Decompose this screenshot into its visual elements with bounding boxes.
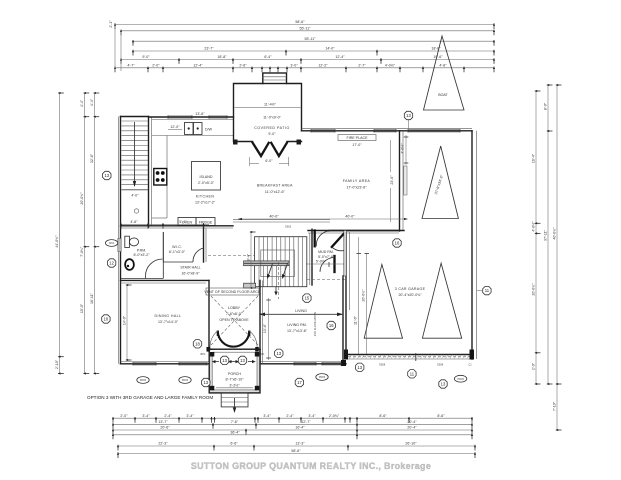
window dining bottom 2 — [179, 362, 207, 365]
kitchen counter lines — [152, 136, 234, 219]
svg-text:12'-4": 12'-4" — [335, 55, 345, 59]
svg-text:LIVING: LIVING — [295, 309, 307, 313]
svg-text:LOBBY: LOBBY — [228, 306, 241, 310]
svg-text:5'-1": 5'-1" — [179, 220, 187, 224]
svg-text:6'-1"x3'-0": 6'-1"x3'-0" — [169, 250, 186, 254]
window family top 1 — [311, 129, 335, 132]
room label LOBBY — [219, 306, 249, 322]
dining top wall — [121, 280, 210, 283]
svg-text:7'-6"x8'-0": 7'-6"x8'-0" — [226, 312, 243, 316]
marker 13 top with leader — [408, 120, 410, 129]
stair landing circle — [134, 209, 138, 213]
svg-text:13: 13 — [203, 380, 208, 385]
room label MUD RM — [318, 250, 335, 259]
svg-text:13'-7"x13'-6": 13'-7"x13'-6" — [287, 329, 308, 333]
svg-text:8'-6": 8'-6" — [437, 414, 445, 418]
garage car triangle left — [364, 264, 402, 338]
mud room left wall — [310, 229, 312, 285]
top dimension line 9-0 / 18-8 / 12-4 — [120, 55, 495, 64]
main stair — [255, 237, 307, 287]
powder room fixtures — [125, 236, 150, 270]
svg-text:3'-2½": 3'-2½" — [229, 384, 240, 388]
svg-text:W.I.C.: W.I.C. — [172, 245, 182, 249]
window seat family right — [404, 166, 407, 195]
room label 3 CAR GARAGE — [395, 287, 426, 297]
svg-text:13'-7": 13'-7" — [158, 420, 168, 424]
svg-text:VENT OF SECOND FLOOR ARCH: VENT OF SECOND FLOOR ARCH — [204, 290, 261, 294]
svg-text:37'-11": 37'-11" — [544, 229, 548, 241]
svg-text:2'-0": 2'-0" — [532, 362, 536, 370]
svg-text:8'-0": 8'-0" — [544, 102, 548, 110]
svg-text:23'-7": 23'-7" — [204, 47, 214, 51]
svg-text:D/W: D/W — [205, 128, 213, 132]
svg-text:8'-4": 8'-4" — [247, 253, 251, 261]
wic walls — [163, 232, 203, 262]
svg-text:26'-10": 26'-10" — [405, 442, 417, 446]
svg-text:40'-0": 40'-0" — [345, 215, 355, 219]
mud room dim line — [306, 260, 346, 268]
oven fridge boxes — [178, 218, 215, 226]
front double door petal leaves — [201, 331, 265, 357]
window kitchen top 2 — [209, 115, 227, 118]
svg-text:5'-0½": 5'-0½" — [316, 260, 327, 264]
svg-text:STAIR HALL: STAIR HALL — [180, 266, 200, 270]
stair hatched landing — [244, 261, 289, 288]
svg-text:OPTION 3 WITH 3RD GARAGE AND L: OPTION 3 WITH 3RD GARAGE AND LARGE FAMIL… — [87, 395, 213, 400]
svg-text:12'-2": 12'-2" — [318, 64, 328, 68]
garage bottom wall and doors — [344, 350, 474, 367]
svg-text:13'-6": 13'-6" — [263, 323, 267, 333]
svg-text:FIRE PLACE: FIRE PLACE — [347, 136, 369, 140]
svg-text:4'-0": 4'-0" — [131, 194, 139, 198]
svg-text:16: 16 — [329, 323, 334, 328]
svg-text:9'-0": 9'-0" — [142, 55, 150, 59]
svg-text:W01: W01 — [109, 241, 115, 245]
svg-text:2'-7": 2'-7" — [358, 64, 366, 68]
svg-text:11'-0"x12'-6": 11'-0"x12'-6" — [265, 190, 286, 194]
beam line breakfast bottom G502 — [233, 220, 330, 229]
svg-text:6'-0"x3'-2": 6'-0"x3'-2" — [133, 253, 150, 257]
room label KITCHEN — [195, 195, 216, 205]
svg-text:2'-6": 2'-6" — [239, 64, 247, 68]
left dimension line 44-0 — [55, 92, 64, 375]
svg-text:11: 11 — [410, 371, 415, 376]
svg-text:13: 13 — [240, 358, 245, 363]
marker 17 bottom living — [295, 378, 303, 386]
mud room door leaf 1 — [315, 231, 331, 247]
marker 13 garage left bottom — [356, 363, 364, 371]
fireplace label box — [338, 135, 376, 148]
svg-text:7'-6": 7'-6" — [231, 420, 239, 424]
window family top 2 — [374, 129, 396, 132]
svg-text:17'-0": 17'-0" — [352, 143, 362, 147]
svg-text:20'-4"x20'-0¾": 20'-4"x20'-0¾" — [398, 293, 422, 297]
dining interior vertical dim — [123, 284, 132, 361]
stair arrows — [244, 262, 288, 299]
svg-text:32'-6": 32'-6" — [90, 153, 94, 163]
lobby dashed cross — [211, 296, 258, 345]
svg-text:COVERED PATIO: COVERED PATIO — [254, 126, 290, 130]
family right wall top vdim — [401, 135, 409, 165]
patio chimney bump — [263, 73, 287, 84]
svg-text:LIVING RM.: LIVING RM. — [287, 323, 306, 327]
svg-text:ISLAND: ISLAND — [200, 175, 213, 179]
family interior rotated dim 23-6 — [390, 140, 394, 222]
option text — [87, 395, 213, 400]
stair block walls top-left — [121, 117, 152, 228]
svg-text:4'-0½": 4'-0½" — [385, 64, 396, 68]
garage interior rotated dims — [354, 237, 370, 354]
svg-text:18: 18 — [195, 341, 200, 346]
svg-text:G508: G508 — [437, 363, 444, 367]
family right wall — [400, 131, 404, 231]
garage left wall — [346, 232, 350, 355]
svg-text:20'-0¾": 20'-0¾" — [362, 289, 366, 302]
svg-text:18'-8": 18'-8" — [431, 47, 441, 51]
svg-text:55'-11": 55'-11" — [300, 27, 312, 31]
patio interior line and labels — [235, 103, 301, 120]
svg-text:58'-6": 58'-6" — [291, 449, 301, 453]
bottom dimension 36-4 row — [112, 431, 473, 440]
svg-text:16'-4": 16'-4" — [295, 426, 305, 430]
kitchen island — [192, 162, 221, 191]
left dimension line 4-4 / 20-0 — [80, 92, 89, 375]
top dimension line 55-11 — [120, 27, 495, 36]
svg-text:5'-0"x7'-8": 5'-0"x7'-8" — [318, 255, 335, 259]
svg-text:6'-6": 6'-6" — [230, 442, 238, 446]
bottom dimension 20-6 / 16-4 row — [112, 426, 473, 435]
dining bottom wall — [121, 362, 210, 364]
dining/lobby wall — [208, 280, 210, 349]
marker 13 bottom garage — [439, 380, 447, 388]
stair hall dashed line — [208, 254, 254, 256]
marker 13 bottom dining — [202, 378, 210, 386]
powder room walls — [121, 232, 163, 279]
marker 13 living — [275, 349, 283, 357]
left dimension line 32-6 / 16-11 — [90, 92, 99, 375]
stair treads upper-left staircase — [122, 121, 149, 190]
room label STAIR HALL — [180, 266, 200, 276]
kitchen bottom wall — [121, 226, 234, 228]
svg-text:36'-4": 36'-4" — [230, 431, 240, 435]
svg-text:2ND FLOOR ABOVE: 2ND FLOOR ABOVE — [313, 312, 317, 337]
svg-text:3'-0": 3'-0" — [290, 64, 298, 68]
svg-text:12'-0": 12'-0" — [170, 125, 180, 129]
stair hall wall — [204, 226, 207, 262]
svg-text:6'-0": 6'-0" — [265, 159, 273, 163]
room label FAMILY AREA — [343, 179, 371, 190]
svg-text:3'-4": 3'-4" — [308, 414, 316, 418]
svg-text:4'-7": 4'-7" — [127, 64, 135, 68]
window kitchen top 1 — [168, 115, 192, 118]
window garage top — [408, 129, 460, 132]
svg-text:FAMILY AREA: FAMILY AREA — [343, 179, 371, 183]
marker 13 left — [103, 171, 111, 179]
svg-text:16'-11": 16'-11" — [90, 292, 94, 304]
svg-text:12'-4": 12'-4" — [193, 64, 203, 68]
svg-text:4'-0½": 4'-0½" — [532, 221, 536, 232]
marker 11 right with leader — [477, 290, 482, 292]
svg-text:8'-6": 8'-6" — [379, 414, 387, 418]
stairwell inner opening rect — [261, 250, 295, 277]
mud room / garage gray wall — [344, 231, 347, 277]
svg-text:13'-2"x17'-2": 13'-2"x17'-2" — [195, 201, 216, 205]
svg-text:PR03: PR03 — [140, 378, 147, 382]
svg-text:4'-4": 4'-4" — [80, 99, 84, 107]
svg-text:BOAT: BOAT — [438, 93, 448, 97]
porch steps — [221, 393, 248, 413]
room label PORCH — [216, 372, 253, 388]
svg-text:PR03: PR03 — [182, 378, 189, 382]
marker 15 living — [303, 294, 311, 302]
svg-text:23'-6": 23'-6" — [390, 175, 394, 185]
svg-text:15: 15 — [305, 296, 310, 301]
svg-text:SUTTON GROUP QUANTUM REALTY IN: SUTTON GROUP QUANTUM REALTY INC., Broker… — [191, 461, 431, 471]
marker 13 porch right — [238, 356, 246, 364]
svg-text:2'-0¾": 2'-0¾" — [329, 414, 340, 418]
room label WIC — [169, 245, 186, 254]
svg-text:PORCH: PORCH — [228, 372, 241, 376]
mud room dashed line — [307, 279, 345, 281]
svg-text:PR03: PR03 — [319, 375, 326, 379]
living room right wall — [342, 276, 344, 364]
powder room door arc — [146, 259, 163, 279]
window in left wall (powder room) — [118, 239, 121, 252]
outer wall left side — [119, 117, 121, 364]
svg-text:7'-10": 7'-10" — [553, 401, 557, 411]
svg-text:OPEN TO ABOVE: OPEN TO ABOVE — [219, 318, 249, 322]
marker ovals bottom row — [137, 377, 149, 384]
svg-text:2'-0": 2'-0" — [152, 64, 160, 68]
svg-text:4'-4": 4'-4" — [90, 98, 94, 106]
svg-text:10: 10 — [104, 317, 109, 322]
svg-text:19'-6": 19'-6" — [433, 55, 443, 59]
svg-text:6'-4": 6'-4" — [264, 55, 272, 59]
svg-text:11'-6": 11'-6" — [354, 315, 358, 325]
svg-text:DINING HALL: DINING HALL — [155, 314, 182, 318]
svg-text:13: 13 — [406, 113, 411, 118]
room label COVERED PATIO — [254, 126, 290, 136]
svg-text:BP1: BP1 — [201, 352, 206, 356]
mud room door leaf 3 — [320, 256, 335, 272]
svg-text:2'-4": 2'-4" — [164, 414, 172, 418]
svg-text:4'-8": 4'-8" — [439, 64, 447, 68]
stair up arrow — [133, 122, 136, 187]
svg-text:BREAKFAST AREA: BREAKFAST AREA — [257, 184, 293, 188]
covered patio walls — [234, 84, 302, 142]
svg-text:20'-4": 20'-4" — [407, 420, 417, 424]
svg-text:16'-0"x8'-9": 16'-0"x8'-9" — [181, 272, 200, 276]
watermark — [191, 461, 431, 471]
top-left small dim 2-1 — [109, 20, 121, 71]
svg-text:20'-0¾": 20'-0¾" — [80, 192, 84, 205]
svg-text:4'-6": 4'-6" — [130, 220, 138, 224]
stair dim label 4-0 — [131, 194, 139, 198]
stair left vertical dim — [247, 231, 256, 289]
garage right wall — [472, 131, 477, 359]
marker 11 bottom garage — [408, 370, 416, 378]
svg-text:13: 13 — [441, 382, 446, 387]
svg-text:17'-0"x23'-6": 17'-0"x23'-6" — [346, 186, 367, 190]
room label DINING HALL — [155, 314, 182, 324]
top dimension line small segments — [114, 64, 495, 73]
living interior vdim — [263, 298, 271, 360]
svg-text:2'-10": 2'-10" — [55, 359, 59, 369]
svg-text:11'-0"x9'-0": 11'-0"x9'-0" — [263, 116, 282, 120]
svg-text:2'-0"x5'-0": 2'-0"x5'-0" — [198, 181, 215, 185]
svg-text:12: 12 — [109, 261, 114, 266]
svg-text:20'-6": 20'-6" — [160, 426, 170, 430]
right dimension line 8-0 / 37-11 — [544, 84, 553, 385]
porch walls — [209, 349, 260, 393]
interior dim 40-0 — [238, 215, 408, 221]
svg-text:KITCHEN: KITCHEN — [196, 195, 215, 199]
svg-text:22'-3": 22'-3" — [158, 442, 168, 446]
svg-text:C1: C1 — [468, 363, 472, 367]
top dimension line 50-11 — [132, 37, 495, 46]
garage car triangle right — [422, 263, 461, 338]
bottom dimension small segments row — [112, 414, 473, 423]
svg-text:2'-4": 2'-4" — [286, 414, 294, 418]
svg-text:11: 11 — [485, 288, 490, 293]
svg-text:16'-4": 16'-4" — [532, 153, 536, 163]
marker 16 living — [327, 321, 335, 329]
dim line kitchen 12-0 — [168, 125, 182, 130]
svg-text:13: 13 — [104, 173, 109, 178]
svg-text:14'-0": 14'-0" — [325, 47, 335, 51]
lobby right wall — [260, 280, 263, 363]
top dimension line 23-7 / 14-0 / 18-8 — [132, 47, 495, 56]
svg-text:3 CAR GARAGE: 3 CAR GARAGE — [395, 287, 426, 291]
patio wall posts — [233, 140, 301, 145]
svg-text:P.RM.: P.RM. — [137, 249, 147, 253]
right dimension line 16-4 / 20-0 — [532, 90, 541, 385]
svg-text:7'-0¾": 7'-0¾" — [80, 246, 84, 257]
svg-text:20'-0¾": 20'-0¾" — [532, 283, 536, 296]
svg-text:13: 13 — [357, 365, 362, 370]
marker 18 lobby — [193, 340, 201, 348]
room label BREAKFAST AREA — [257, 184, 293, 195]
svg-text:G508: G508 — [379, 363, 386, 367]
svg-text:40'-0¾": 40'-0¾" — [553, 227, 557, 240]
svg-text:16: 16 — [395, 241, 400, 246]
svg-text:18'-8": 18'-8" — [217, 55, 227, 59]
family bottom / mud room top wall — [308, 229, 404, 233]
marker 16 mud — [393, 239, 401, 247]
svg-text:58'-6": 58'-6" — [295, 20, 305, 24]
svg-text:13: 13 — [276, 351, 281, 356]
marker 12 left — [107, 259, 115, 267]
svg-text:13'-6": 13'-6" — [195, 112, 205, 116]
rotated note 2nd floor above — [313, 312, 317, 337]
svg-text:13'-7"x14'-0": 13'-7"x14'-0" — [158, 320, 179, 324]
kitchen top wall — [149, 117, 234, 120]
svg-text:12'-7": 12'-7" — [301, 420, 311, 424]
svg-text:11'-4½": 11'-4½" — [264, 103, 277, 107]
marker oval left — [105, 240, 117, 247]
patio french doors swing V strokes — [250, 142, 289, 166]
vent label box — [204, 288, 261, 295]
window living bottom 2 — [322, 362, 341, 365]
svg-text:20'-4": 20'-4" — [407, 426, 417, 430]
porch corner posts — [206, 352, 259, 390]
room label LIVING RM — [287, 323, 308, 333]
svg-text:8'-7"x6'-10": 8'-7"x6'-10" — [225, 378, 244, 382]
bottom dimension 13-7 / 7-6 / 12-7 / 20-4 row — [112, 420, 473, 429]
svg-text:G502: G502 — [285, 225, 292, 229]
svg-text:17: 17 — [297, 380, 302, 385]
bottom dimension 22-3 / 6-6 / 13-3 / 26-10 row — [117, 442, 476, 451]
dim label 13-6 kitchen wall — [195, 112, 205, 116]
svg-text:3'-4": 3'-4" — [186, 414, 194, 418]
stove cooktop — [154, 169, 167, 186]
stair hall top dim labels — [120, 220, 209, 229]
boat triangle — [424, 36, 465, 110]
svg-text:FRIDGE: FRIDGE — [199, 221, 213, 225]
svg-text:44'-0¾": 44'-0¾" — [55, 235, 59, 248]
marker 13 porch left — [220, 356, 228, 364]
living dim arrow — [259, 309, 343, 316]
dishwasher D/W — [185, 123, 213, 135]
svg-text:3'-4": 3'-4" — [142, 414, 150, 418]
porch octagon arrows — [212, 360, 256, 363]
svg-text:PR03: PR03 — [457, 377, 464, 381]
svg-text:MUD RM.: MUD RM. — [318, 250, 334, 254]
bottom dimension 58-6 row — [117, 449, 476, 458]
svg-text:2'-0": 2'-0" — [120, 414, 128, 418]
window living bottom 1 — [294, 362, 316, 365]
right dimension line 40-0 — [553, 84, 562, 431]
svg-text:55'-11": 55'-11" — [305, 37, 317, 41]
svg-text:40'-0": 40'-0" — [269, 215, 279, 219]
svg-text:13'-3": 13'-3" — [295, 442, 305, 446]
svg-text:14'-0": 14'-0" — [123, 315, 127, 325]
mud room door leaf 2 (garage door) — [332, 233, 345, 251]
svg-text:4'-0½": 4'-0½" — [401, 143, 405, 154]
marker 10 left — [102, 315, 110, 323]
window dining bottom 1 — [133, 362, 156, 365]
svg-text:15'-0": 15'-0" — [80, 303, 84, 313]
svg-text:2'-1": 2'-1" — [109, 20, 113, 28]
svg-text:3'-4": 3'-4" — [263, 414, 271, 418]
top dimension line 58-6 — [114, 20, 495, 29]
family/garage top wall — [302, 129, 473, 131]
garage bay triangle — [422, 146, 458, 219]
svg-text:9'-0": 9'-0" — [268, 132, 276, 136]
svg-text:13: 13 — [222, 358, 227, 363]
living bottom wall — [260, 360, 346, 366]
